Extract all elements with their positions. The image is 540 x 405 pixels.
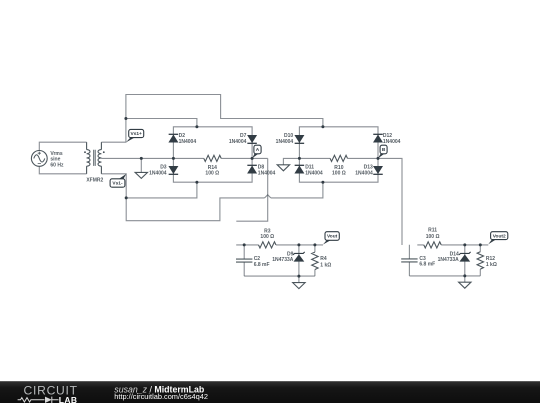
svg-text:Vs1+: Vs1+ [131,131,143,137]
svg-text:1 kΩ: 1 kΩ [486,262,497,268]
svg-text:R4: R4 [320,256,327,262]
svg-text:R12: R12 [486,256,495,262]
svg-text:100 Ω: 100 Ω [205,170,219,176]
svg-text:1N4004: 1N4004 [383,139,401,145]
svg-text:1N4004: 1N4004 [258,171,276,177]
svg-text:60 Hz: 60 Hz [50,162,64,168]
svg-text:1N4733A: 1N4733A [272,257,294,263]
svg-text:1N4004: 1N4004 [276,139,294,145]
svg-text:100 Ω: 100 Ω [332,170,346,176]
svg-text:1N4004: 1N4004 [305,171,323,177]
svg-text:Vs1-: Vs1- [112,181,123,187]
svg-text:1N4004: 1N4004 [179,139,197,145]
svg-text:100 Ω: 100 Ω [260,234,274,240]
svg-text:A: A [256,147,260,153]
svg-text:XFMR2: XFMR2 [86,178,103,184]
svg-text:C2: C2 [254,256,261,262]
svg-text:6.8 mF: 6.8 mF [254,262,270,268]
svg-text:LAB: LAB [59,395,78,405]
svg-text:Vout2: Vout2 [493,233,506,239]
svg-text:1N4004: 1N4004 [149,171,167,177]
svg-text:1N4004: 1N4004 [229,139,247,145]
svg-text:1 kΩ: 1 kΩ [320,262,331,268]
svg-text:1N4004: 1N4004 [355,171,373,177]
svg-text:1N4733A: 1N4733A [438,257,460,263]
svg-text:B: B [382,147,386,153]
svg-text:100 Ω: 100 Ω [426,234,440,240]
svg-text:6.8 mF: 6.8 mF [419,261,435,267]
svg-text:http://circuitlab.com/c6s4q42: http://circuitlab.com/c6s4q42 [114,392,208,401]
svg-text:Vout: Vout [327,234,338,240]
svg-text:R11: R11 [428,227,437,233]
